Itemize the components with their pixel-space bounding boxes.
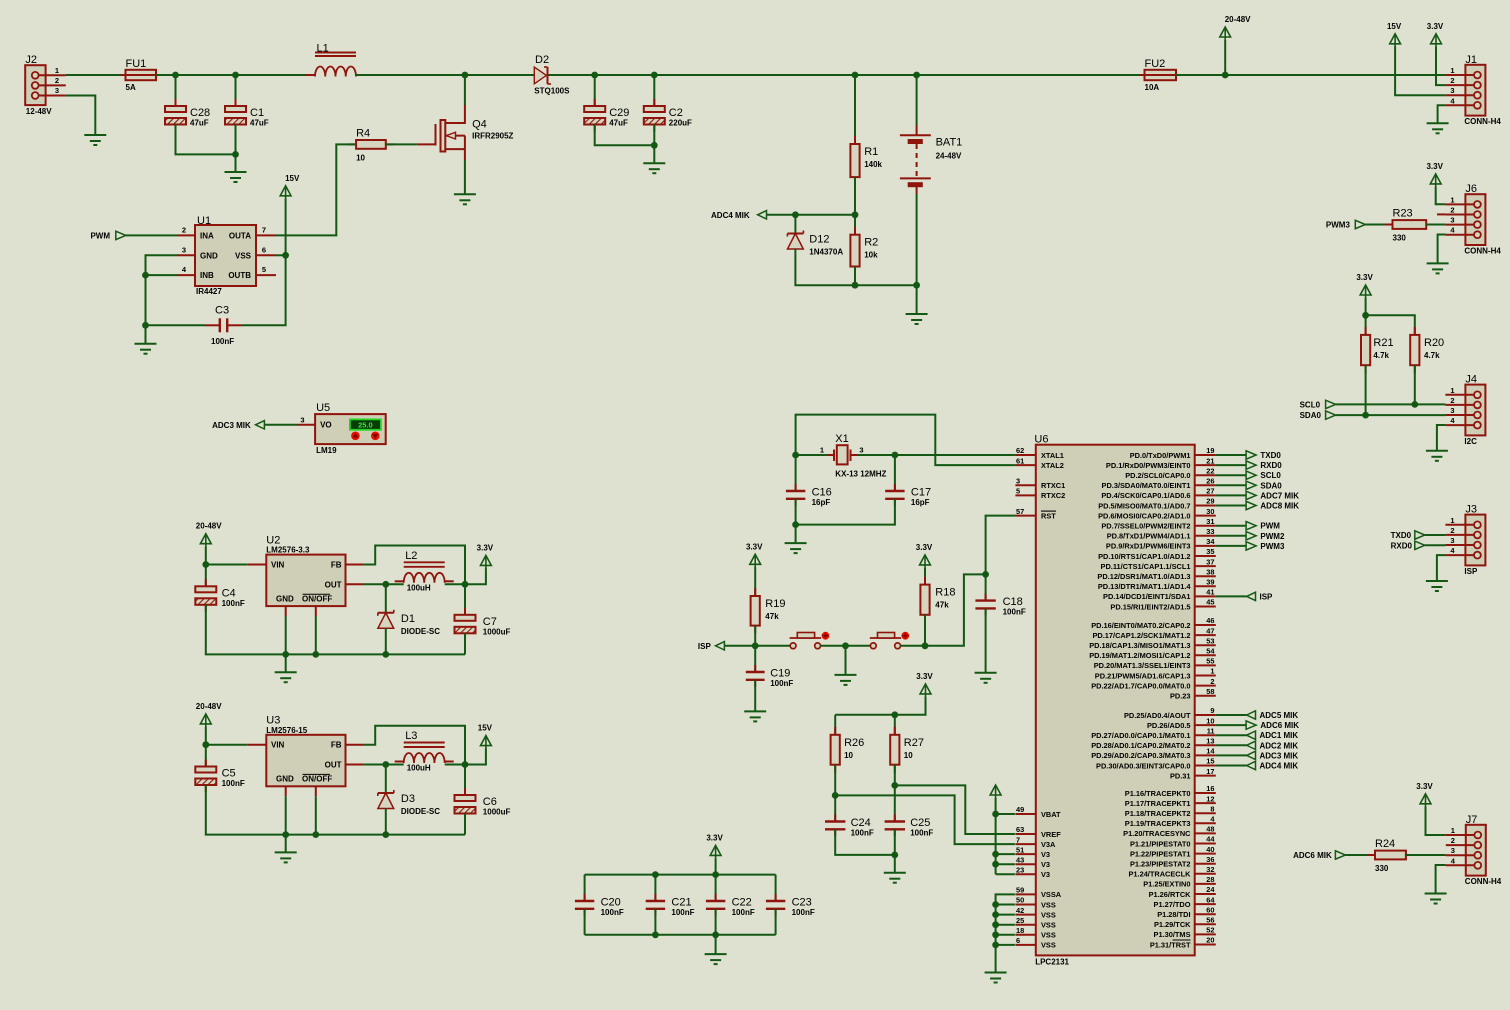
terminal TXD0 at J3 (1391, 531, 1425, 540)
svg-text:PD.28/AD0.1/CAP0.2/MAT0.2: PD.28/AD0.1/CAP0.2/MAT0.2 (1091, 741, 1190, 750)
svg-text:PD.9/RxD1/PWM6/EINT3: PD.9/RxD1/PWM6/EINT3 (1106, 542, 1191, 551)
pin 17 PD.31 U6 (1170, 767, 1216, 781)
svg-text:20: 20 (1206, 936, 1214, 945)
svg-text:RXD0: RXD0 (1391, 541, 1413, 550)
svg-text:P1.23/PIPESTAT2: P1.23/PIPESTAT2 (1130, 860, 1191, 869)
wire pin 31 to terminal PWM (1216, 525, 1246, 527)
svg-text:OUTA: OUTA (229, 231, 251, 240)
wire rail to C23 (775, 875, 777, 901)
svg-text:57: 57 (1016, 507, 1024, 516)
svg-text:P1.20/TRACESYNC: P1.20/TRACESYNC (1123, 829, 1191, 838)
pin 56 P1.29/TCK U6 (1154, 916, 1216, 930)
wire to inductor (386, 764, 404, 766)
svg-text:2: 2 (1450, 76, 1454, 85)
svg-text:SCL0: SCL0 (1260, 471, 1281, 480)
svg-text:220uF: 220uF (669, 119, 692, 128)
wire pin 27 to terminal ADC7 MIK (1216, 494, 1246, 496)
power 15V output (478, 724, 493, 750)
resistor R23 330 (1385, 208, 1435, 243)
wire out node to C7 (464, 584, 466, 615)
svg-text:VBAT: VBAT (1041, 810, 1061, 819)
wire TXD0 to J3 pin2 (1425, 534, 1446, 536)
svg-text:47: 47 (1206, 626, 1214, 635)
svg-text:PD.0/TxD0/PWM1: PD.0/TxD0/PWM1 (1130, 451, 1191, 460)
svg-text:PD.8/TxD1/PWM4/AD1.1: PD.8/TxD1/PWM4/AD1.1 (1107, 532, 1191, 541)
terminal PWM input (116, 231, 126, 239)
ground buttons (835, 675, 857, 685)
wire C3 right to 15V riser (242, 255, 286, 325)
wire pin 14 to terminal ADC3 MIK (1216, 754, 1247, 756)
wire C29 to bottom join (595, 125, 655, 146)
wire down to C3 node (145, 275, 147, 325)
pin 11 PD.27/AD0.0/CAP0.1/MAT0.1 U6 (1091, 726, 1216, 740)
pin 63 VREF U6 (1015, 825, 1061, 839)
wire R21 to SDA0 line (1365, 365, 1367, 415)
svg-text:ISP: ISP (1464, 567, 1478, 576)
power 3.3V output (477, 543, 494, 569)
pin 37 PD.11/CTS1/CAP1.1/SCL1 U6 (1101, 557, 1216, 571)
svg-text:VSS: VSS (1041, 900, 1056, 909)
svg-text:3: 3 (1016, 477, 1020, 486)
terminal PWM3 (1326, 220, 1365, 229)
svg-text:25: 25 (1016, 916, 1024, 925)
junction (913, 282, 920, 289)
wire C16 to join (795, 499, 797, 525)
wire Q4 drain (464, 75, 466, 105)
svg-text:D1: D1 (401, 613, 415, 625)
svg-text:LM19: LM19 (316, 446, 337, 455)
junction (591, 72, 598, 79)
svg-text:PD.19/MAT1.2/MOSI1/CAP1.2: PD.19/MAT1.2/MOSI1/CAP1.2 (1089, 651, 1190, 660)
svg-text:CONN-H4: CONN-H4 (1464, 247, 1501, 256)
resistor R21 4.7k (1361, 327, 1394, 373)
wire R19 to ISP node (754, 626, 756, 646)
wire crystal left (796, 454, 827, 456)
svg-text:24: 24 (1206, 885, 1215, 894)
svg-text:1: 1 (1450, 66, 1454, 75)
connector J4 I2C (1445, 374, 1485, 446)
junction (922, 642, 929, 649)
junction (752, 642, 759, 649)
wire R2 to bottom (854, 267, 856, 286)
svg-text:LPC2131: LPC2131 (1035, 957, 1069, 966)
svg-text:R20: R20 (1424, 337, 1444, 349)
svg-text:PD.23: PD.23 (1170, 692, 1191, 701)
svg-text:INB: INB (200, 271, 214, 280)
pin 16 P1.16/TRACEPKT0 U6 (1125, 784, 1216, 798)
svg-text:22: 22 (1206, 466, 1214, 475)
capacitor C17 16pF (885, 484, 931, 507)
wire U3 OUT (364, 764, 386, 766)
pin 36 P1.23/PIPESTAT2 U6 (1130, 855, 1216, 869)
connector J1 CONN-H4 (1445, 54, 1501, 126)
pin 28 P1.25/EXTIN0 U6 (1143, 875, 1216, 889)
terminal ISP node (698, 642, 725, 651)
pin 54 PD.19/MAT1.2/MOSI1/CAP1.2 U6 (1089, 647, 1216, 661)
svg-text:P1.19/TRACEPKT3: P1.19/TRACEPKT3 (1125, 819, 1191, 828)
svg-text:SDA0: SDA0 (1300, 411, 1322, 420)
svg-text:TXD0: TXD0 (1391, 531, 1412, 540)
svg-text:P1.25/EXTIN0: P1.25/EXTIN0 (1143, 880, 1190, 889)
svg-text:4.7k: 4.7k (1373, 351, 1389, 360)
svg-text:3.3V: 3.3V (1427, 22, 1444, 31)
pin 24 P1.26/RTCK U6 (1149, 885, 1216, 899)
ground C18 (975, 673, 997, 683)
svg-text:R4: R4 (356, 127, 370, 139)
svg-text:RST: RST (1041, 511, 1056, 520)
junction (382, 651, 389, 658)
svg-text:2: 2 (1450, 206, 1454, 215)
svg-text:P1.30/TMS: P1.30/TMS (1154, 930, 1191, 939)
inductor L1 (306, 43, 365, 77)
junction (202, 741, 209, 748)
wire button1 to ground node (821, 645, 846, 647)
wire bottom rail (286, 834, 465, 836)
junction (891, 711, 898, 718)
svg-text:VO: VO (320, 420, 332, 429)
svg-text:3: 3 (859, 445, 863, 454)
svg-text:18: 18 (1016, 926, 1024, 935)
svg-text:30: 30 (1206, 507, 1214, 516)
svg-text:40: 40 (1206, 845, 1214, 854)
svg-text:15V: 15V (285, 174, 300, 183)
terminal ADC3 MIK (1247, 751, 1299, 760)
pin 25 VSS U6 (1015, 916, 1055, 930)
terminal label PWM (90, 231, 110, 240)
pin 7 V3A U6 (1015, 835, 1056, 849)
svg-text:1: 1 (1451, 826, 1455, 835)
svg-text:47k: 47k (765, 612, 779, 621)
svg-text:PD.12/DSR1/MAT1.0/AD1.3: PD.12/DSR1/MAT1.0/AD1.3 (1097, 572, 1190, 581)
pin 29 PD.5/MISO0/MAT0.1/AD0.7 U6 (1098, 497, 1216, 511)
pin 43 V3 U6 (1015, 855, 1050, 869)
svg-text:52: 52 (1206, 926, 1214, 935)
pin 64 P1.27/TDO U6 (1154, 895, 1216, 909)
wire 3.3V arrow down (835, 697, 925, 715)
wire L1 to Q4 drain node (356, 74, 534, 76)
svg-text:3: 3 (1450, 536, 1454, 545)
svg-text:16pF: 16pF (911, 498, 930, 507)
wire SCL0 to J4 pin2 (1336, 403, 1446, 405)
junction (312, 651, 319, 658)
wire 15V arrow down (285, 199, 287, 256)
svg-text:10k: 10k (864, 251, 878, 260)
pin 50 VSS U6 (1015, 896, 1055, 910)
svg-text:LM2576-3.3: LM2576-3.3 (266, 546, 310, 555)
svg-text:100uH: 100uH (407, 584, 431, 593)
wire U3 ON/OFF pin down (315, 796, 317, 834)
wire U3 GND pin down (285, 796, 287, 834)
svg-text:20-48V: 20-48V (196, 702, 222, 711)
wire C22 to bottom rail (715, 909, 717, 935)
svg-text:61: 61 (1016, 456, 1024, 465)
wire C1 to bottom join (235, 125, 237, 155)
svg-text:10: 10 (844, 751, 853, 760)
wire U1 GND loop (146, 255, 178, 275)
svg-text:VIN: VIN (271, 741, 285, 750)
wire C4 to bottom rail (206, 605, 286, 655)
svg-text:PD.21/PWM5/AD1.6/CAP1.3: PD.21/PWM5/AD1.6/CAP1.3 (1095, 671, 1191, 680)
capacitor C6 1000uF (455, 788, 511, 821)
pin 58 PD.23 U6 (1170, 687, 1216, 701)
svg-text:PD.1/RxD0/PWM3/EINT0: PD.1/RxD0/PWM3/EINT0 (1106, 461, 1191, 470)
svg-text:P1.26/RTCK: P1.26/RTCK (1149, 890, 1192, 899)
pin 55 PD.20/MAT1.3/SSEL1/EINT3 U6 (1094, 657, 1216, 671)
wire rail to C22 (715, 875, 717, 901)
wire to C17 (894, 455, 896, 491)
junction (992, 851, 999, 858)
pin 9 PD.25/AD0.4/AOUT U6 (1124, 706, 1216, 720)
junction (891, 852, 898, 859)
svg-text:3.3V: 3.3V (1416, 782, 1433, 791)
wire U2 OUT (364, 583, 386, 585)
wire V3 riser (995, 798, 997, 874)
svg-text:U3: U3 (266, 715, 280, 727)
pin 3 RTXC1 U6 (1015, 477, 1065, 491)
pin 4 P1.19/TRACEPKT3 U6 (1125, 815, 1216, 829)
wire node to RST (925, 574, 986, 645)
svg-text:100nF: 100nF (770, 679, 793, 688)
pin 32 P1.24/TRACECLK U6 (1128, 865, 1215, 879)
junction (382, 761, 389, 768)
junction (202, 561, 209, 568)
capacitor C7 1000uF (455, 608, 511, 641)
wire out node to 3.3V (465, 568, 486, 584)
wire C6 to bottom rail (464, 814, 466, 835)
svg-text:PD.3/SDA0/MAT0.0/EINT1: PD.3/SDA0/MAT0.0/EINT1 (1102, 481, 1191, 490)
svg-text:D3: D3 (401, 793, 415, 805)
wire inductor out (445, 583, 465, 585)
terminal RXD0 (1246, 461, 1282, 470)
junction (992, 861, 999, 868)
svg-text:100uH: 100uH (407, 764, 431, 773)
svg-text:47k: 47k (935, 601, 949, 610)
svg-text:L3: L3 (405, 730, 417, 742)
svg-text:V3: V3 (1041, 850, 1050, 859)
svg-text:C23: C23 (792, 897, 812, 909)
wire bottom rail to ground (715, 935, 717, 954)
svg-text:C5: C5 (222, 768, 236, 780)
svg-text:20-48V: 20-48V (1225, 15, 1251, 24)
wire V3 row (996, 873, 1015, 875)
pin 48 P1.20/TRACESYNC U6 (1123, 825, 1216, 839)
svg-text:2: 2 (1450, 396, 1454, 405)
power 3.3V at J1 (1427, 22, 1444, 48)
junction (282, 252, 289, 259)
ground U2 (275, 672, 297, 682)
svg-text:100nF: 100nF (792, 908, 815, 917)
wire R1 to node ADC4 (854, 177, 856, 215)
ground J6 (1427, 263, 1449, 273)
svg-text:1: 1 (1450, 195, 1454, 204)
wire R20 to SCL0 line (1414, 365, 1416, 404)
svg-text:1: 1 (1210, 667, 1214, 676)
wire button ground (845, 646, 847, 675)
wire to C5 (205, 745, 207, 767)
svg-text:J4: J4 (1465, 374, 1477, 386)
svg-text:C3: C3 (215, 305, 229, 317)
svg-text:ISP: ISP (698, 642, 712, 651)
ground decoupling row (705, 954, 727, 964)
svg-text:4.7k: 4.7k (1424, 351, 1440, 360)
svg-text:35: 35 (1206, 547, 1214, 556)
svg-text:38: 38 (1206, 567, 1214, 576)
svg-text:P1.29/TCK: P1.29/TCK (1154, 920, 1191, 929)
svg-text:P1.22/PIPESTAT1: P1.22/PIPESTAT1 (1130, 849, 1191, 858)
pin 61 XTAL2 U6 (1015, 456, 1063, 470)
junction (712, 931, 719, 938)
junction (462, 581, 469, 588)
svg-text:PD.2/SCL0/CAP0.0: PD.2/SCL0/CAP0.0 (1125, 471, 1190, 480)
svg-text:C1: C1 (250, 107, 264, 119)
junction (232, 72, 239, 79)
wire crystal join to ground (795, 525, 797, 544)
fuse FU2 10A (1140, 58, 1182, 92)
svg-text:53: 53 (1206, 636, 1214, 645)
svg-text:60: 60 (1206, 905, 1214, 914)
svg-text:PD.20/MAT1.3/SSEL1/EINT3: PD.20/MAT1.3/SSEL1/EINT3 (1094, 661, 1191, 670)
svg-text:CONN-H4: CONN-H4 (1464, 117, 1501, 126)
svg-text:140k: 140k (864, 160, 882, 169)
svg-text:7: 7 (1016, 835, 1020, 844)
svg-text:20-48V: 20-48V (196, 522, 222, 531)
svg-text:36: 36 (1206, 855, 1214, 864)
wire pin 26 to terminal SDA0 (1216, 484, 1246, 486)
svg-text:3.3V: 3.3V (746, 542, 763, 551)
svg-text:25.0: 25.0 (358, 421, 373, 430)
transistor Q4 IRFR2905Z (417, 105, 514, 160)
wire rail to ground (285, 654, 287, 672)
svg-text:OUT: OUT (325, 580, 342, 589)
svg-text:PD.18/CAP1.3/MISO1/MAT1.3: PD.18/CAP1.3/MISO1/MAT1.3 (1089, 641, 1190, 650)
ground U3 (275, 852, 297, 862)
svg-text:DIODE-SC: DIODE-SC (401, 807, 440, 816)
svg-text:15V: 15V (478, 724, 493, 733)
svg-text:P1.21/PIPESTAT0: P1.21/PIPESTAT0 (1130, 839, 1191, 848)
svg-text:ADC4 MIK: ADC4 MIK (1260, 762, 1299, 771)
svg-text:39: 39 (1206, 578, 1214, 587)
wire FU2 to J1 pin1 (1176, 74, 1445, 76)
capacitor C29 47uF (584, 99, 629, 132)
wire U1 OUTA to R4 (276, 144, 356, 235)
pin stub J6 pin2 (1437, 213, 1445, 215)
svg-text:PD.25/AD0.4/AOUT: PD.25/AD0.4/AOUT (1124, 711, 1191, 720)
svg-text:C20: C20 (601, 897, 621, 909)
svg-text:FU1: FU1 (126, 58, 147, 70)
wire node to R2 (854, 215, 856, 235)
svg-text:R23: R23 (1393, 208, 1413, 220)
wire U2 ON/OFF pin down (315, 616, 317, 654)
wire J2 pin3 to ground (66, 96, 96, 136)
svg-text:9: 9 (1210, 706, 1214, 715)
wire BAT1 to bottom node (916, 194, 918, 285)
svg-text:P1.18/TRACEPKT2: P1.18/TRACEPKT2 (1125, 809, 1191, 818)
junction (382, 831, 389, 838)
svg-text:ADC7 MIK: ADC7 MIK (1260, 491, 1299, 500)
svg-text:11: 11 (1207, 726, 1215, 735)
svg-text:42: 42 (1016, 906, 1024, 915)
crystal X1 KX-13 12MHZ (820, 433, 887, 478)
svg-text:C19: C19 (770, 668, 790, 680)
power 3.3V at decoupling row (706, 833, 723, 859)
junction (792, 452, 799, 459)
svg-text:J2: J2 (25, 54, 37, 66)
diode D3 DIODE-SC (378, 790, 440, 816)
connector J3 ISP (1445, 504, 1485, 576)
svg-text:PD.31: PD.31 (1170, 771, 1191, 780)
pin 23 V3 U6 (1015, 865, 1050, 879)
wire main +V rail (66, 74, 126, 76)
svg-text:VSS: VSS (1041, 941, 1056, 950)
wire pin 10 to terminal ADC6 MIK (1216, 724, 1246, 726)
svg-text:64: 64 (1206, 895, 1215, 904)
svg-text:ON/OFF: ON/OFF (302, 595, 332, 604)
svg-text:47uF: 47uF (250, 119, 269, 128)
gate driver U1 IR4427 (177, 215, 276, 296)
svg-text:FU2: FU2 (1145, 58, 1166, 70)
capacitor C5 100nF (195, 760, 245, 793)
svg-text:33: 33 (1206, 527, 1214, 536)
wire 3.3V to J1 pin2 (1436, 47, 1445, 85)
svg-text:PD.10/RTS1/CAP1.0/AD1.2: PD.10/RTS1/CAP1.0/AD1.2 (1098, 552, 1190, 561)
svg-text:ADC6 MIK: ADC6 MIK (1293, 851, 1332, 860)
svg-text:44: 44 (1206, 835, 1215, 844)
svg-text:34: 34 (1206, 537, 1215, 546)
svg-text:12: 12 (1206, 794, 1214, 803)
ground J1 (1427, 123, 1449, 133)
ground VSS (985, 973, 1007, 983)
svg-text:55: 55 (1206, 657, 1214, 666)
pin 18 VSS U6 (1015, 926, 1055, 940)
svg-text:R18: R18 (935, 587, 955, 599)
terminal ADC3 MIK (212, 421, 264, 430)
wire pin 29 to terminal ADC8 MIK (1216, 505, 1246, 507)
svg-text:2: 2 (55, 76, 59, 85)
svg-text:PD.7/SSEL0/PWM2/EINT2: PD.7/SSEL0/PWM2/EINT2 (1101, 522, 1190, 531)
wire J1 pin4 to ground (1438, 105, 1446, 123)
svg-text:J3: J3 (1465, 504, 1477, 516)
junction (652, 931, 659, 938)
svg-text:10: 10 (356, 153, 365, 162)
wire V3 row (996, 863, 1015, 865)
pin 51 V3 U6 (1015, 845, 1050, 859)
svg-text:R19: R19 (765, 598, 785, 610)
svg-text:P1.31/TRST: P1.31/TRST (1150, 940, 1191, 949)
svg-text:62: 62 (1016, 446, 1024, 455)
svg-text:46: 46 (1206, 616, 1214, 625)
resistor R26 10 (831, 727, 865, 773)
resistor R24 330 (1367, 838, 1414, 873)
wire 3.3V to J6 pin1 (1436, 187, 1446, 204)
svg-text:PD.11/CTS1/CAP1.1/SCL1: PD.11/CTS1/CAP1.1/SCL1 (1101, 562, 1191, 571)
wire C21 to bottom rail (654, 909, 656, 935)
svg-text:50: 50 (1016, 896, 1024, 905)
junction (992, 942, 999, 949)
svg-text:PD.27/AD0.0/CAP0.1/MAT0.1: PD.27/AD0.0/CAP0.1/MAT0.1 (1091, 731, 1190, 740)
wire C28 to bottom join (176, 125, 236, 155)
svg-text:R27: R27 (904, 737, 924, 749)
svg-text:100nF: 100nF (211, 337, 234, 346)
svg-text:P1.16/TRACEPKT0: P1.16/TRACEPKT0 (1125, 789, 1191, 798)
terminal ADC8 MIK (1246, 501, 1299, 510)
power 15V at U1 (280, 174, 300, 200)
microcontroller U6 LPC2131 body (1034, 433, 1194, 966)
wire J6 pin4 to ground (1438, 235, 1446, 264)
svg-text:2: 2 (182, 225, 186, 234)
pin 40 P1.22/PIPESTAT1 U6 (1130, 845, 1216, 859)
ground J7 (1425, 894, 1447, 904)
svg-text:LM2576-15: LM2576-15 (266, 726, 307, 735)
